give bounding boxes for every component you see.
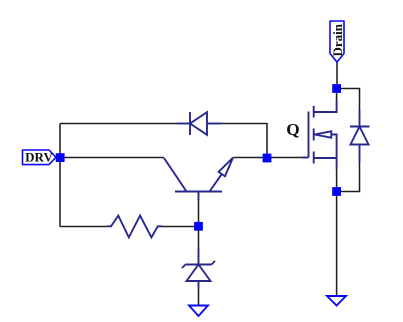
wire: transistor base lead to base node — [198, 200, 200, 227]
wire: transistor emitter to gate node — [234, 157, 268, 159]
channel bar top — [313, 106, 315, 118]
diode D2 (body diode, cathode up) — [350, 110, 370, 162]
transistor Q1 (NPN, base down) — [164, 158, 233, 201]
node junction at drain — [332, 84, 341, 93]
ground (right, under source) — [327, 296, 346, 306]
wire: resistor R1 to base node — [162, 226, 199, 228]
body arrow — [315, 131, 332, 137]
svg-text:Drain: Drain — [330, 23, 345, 56]
channel bar middle — [313, 129, 315, 141]
ground (left, under zener) — [189, 306, 208, 317]
drain stub — [314, 100, 337, 113]
wire: drain node right branch to body diode D2 — [341, 89, 360, 111]
wire: left vertical rail x=60 — [59, 124, 61, 227]
diode D1 (top, pointing left) — [177, 112, 221, 135]
zener diode D3 (cathode up) — [182, 248, 215, 289]
wire: DRV node to transistor collector — [60, 157, 164, 159]
node junction at base — [194, 222, 203, 231]
wire: source node down to right ground — [336, 196, 338, 296]
wire: Drain flag down to drain node — [336, 62, 338, 84]
port flag Drain — [330, 21, 345, 62]
node junction at DRV — [56, 153, 65, 162]
wire: top rail right segment from D1 down to gate node — [221, 124, 267, 159]
gate lead — [302, 157, 309, 159]
wire: MOSFET source stub to source node — [336, 169, 338, 187]
wire: drain node to MOSFET drain stub — [336, 93, 338, 100]
mosfet Q (N-channel) — [302, 100, 337, 170]
node junction at source — [332, 187, 341, 196]
source stub — [314, 158, 337, 169]
wire: bottom rail to resistor R1 — [60, 226, 107, 228]
gate plate — [308, 112, 310, 158]
wire: body diode D2 bottom to source node — [341, 162, 360, 192]
node junction at gate — [263, 154, 272, 163]
wire: base node down to zener D3 — [198, 227, 200, 249]
port flag DRV — [23, 149, 57, 164]
wire: top rail left segment to diode D1 — [60, 123, 177, 125]
channel bar bottom — [313, 152, 315, 164]
resistor R1 — [107, 216, 162, 238]
wire: zener D3 to left ground — [198, 289, 200, 306]
svg-text:Q: Q — [286, 120, 299, 139]
wire: gate node to MOSFET gate — [267, 157, 302, 159]
svg-text:DRV: DRV — [25, 149, 53, 164]
